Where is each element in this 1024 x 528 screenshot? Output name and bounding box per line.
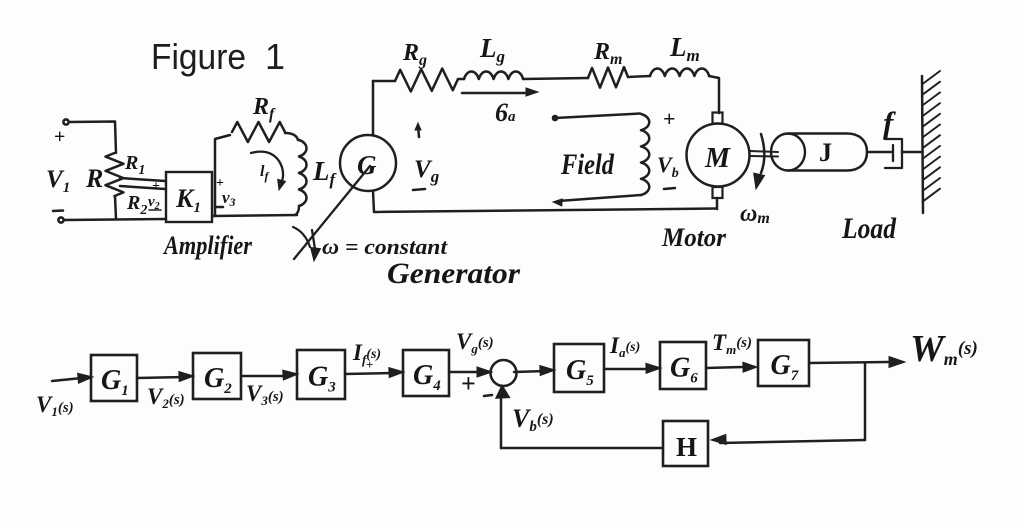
- svg-text:Rm: Rm: [593, 39, 622, 68]
- svg-text:R1: R1: [124, 152, 145, 178]
- svg-text:+: +: [152, 179, 160, 194]
- svg-text:Vg: Vg: [414, 156, 440, 186]
- svg-text:Wm(s): Wm(s): [910, 328, 978, 370]
- svg-text:Rg: Rg: [402, 40, 427, 69]
- svg-text:Lg: Lg: [479, 33, 506, 66]
- svg-text:V1(s): V1(s): [36, 392, 74, 419]
- svg-text:Vb: Vb: [657, 152, 679, 181]
- svg-text:M: M: [704, 143, 731, 174]
- svg-text:Load: Load: [841, 212, 897, 245]
- svg-text:Lm: Lm: [669, 32, 700, 65]
- svg-text:Amplifier: Amplifier: [162, 231, 252, 260]
- svg-text:G4: G4: [413, 360, 441, 394]
- svg-text:v3: v3: [222, 188, 236, 209]
- svg-text:G3: G3: [308, 362, 336, 396]
- svg-text:1: 1: [265, 36, 285, 77]
- svg-text:V3(s): V3(s): [246, 381, 284, 408]
- svg-text:Figure: Figure: [151, 36, 246, 77]
- svg-text:Rf: Rf: [252, 94, 276, 123]
- svg-text:Motor: Motor: [661, 223, 727, 252]
- svg-text:+: +: [54, 126, 65, 148]
- svg-text:6a: 6a: [495, 98, 516, 127]
- svg-text:lf: lf: [260, 163, 269, 183]
- svg-text:ωm: ωm: [740, 201, 770, 227]
- svg-text:K1: K1: [175, 184, 201, 216]
- svg-text:ω = constant: ω = constant: [322, 234, 448, 259]
- svg-text:G2: G2: [204, 363, 232, 397]
- svg-text:J: J: [819, 138, 832, 167]
- svg-text:G7: G7: [771, 350, 799, 384]
- svg-text:+: +: [663, 106, 676, 131]
- svg-text:R: R: [85, 164, 103, 193]
- svg-text:Vg(s): Vg(s): [456, 329, 494, 356]
- svg-text:V2(s): V2(s): [147, 384, 185, 411]
- svg-text:G: G: [357, 150, 377, 180]
- svg-text:V1: V1: [46, 166, 70, 196]
- svg-text:Vb(s): Vb(s): [512, 404, 554, 435]
- svg-text:f: f: [883, 105, 896, 140]
- svg-text:H: H: [676, 432, 697, 462]
- svg-text:+: +: [461, 369, 476, 398]
- svg-text:G1: G1: [101, 365, 129, 399]
- svg-text:Field: Field: [560, 148, 615, 181]
- svg-text:Lf: Lf: [312, 156, 338, 189]
- svg-text:Ia(s): Ia(s): [609, 333, 640, 360]
- svg-text:Tm(s): Tm(s): [712, 330, 752, 357]
- svg-text:+: +: [366, 357, 373, 372]
- svg-text:R2: R2: [126, 192, 147, 218]
- svg-text:G5: G5: [566, 355, 594, 389]
- svg-text:Generator: Generator: [387, 257, 520, 290]
- svg-text:G6: G6: [670, 353, 698, 387]
